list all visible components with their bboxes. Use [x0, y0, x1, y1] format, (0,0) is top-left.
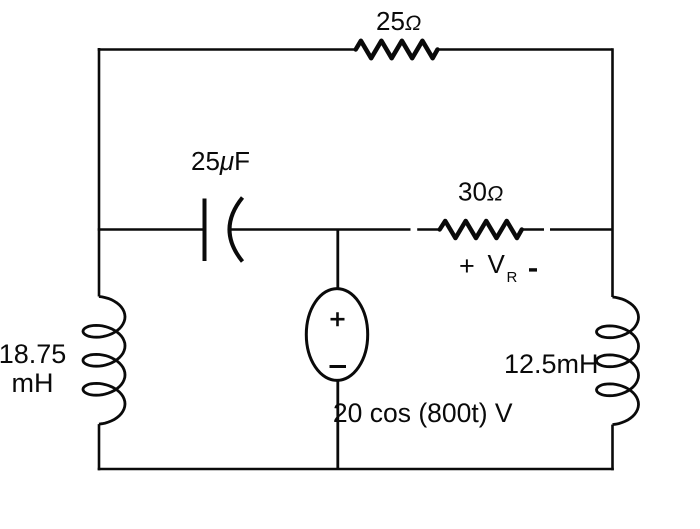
- wire right vertical lower: [611, 425, 614, 471]
- svg-text:30Ω: 30Ω: [458, 177, 503, 207]
- plus sign inside source: [331, 312, 345, 326]
- svg-text:12.5mH: 12.5mH: [504, 349, 599, 379]
- svg-text:V: V: [488, 249, 506, 279]
- svg-text:20 cos (800t) V: 20 cos (800t) V: [333, 398, 513, 428]
- minus sign inside source: [330, 365, 347, 368]
- voltage source VS ellipse: [306, 289, 367, 381]
- inductor L2 12.5mH coil: [597, 297, 639, 425]
- wire middle-left: node to capacitor: [98, 228, 205, 231]
- wire left vertical upper: [98, 48, 101, 296]
- resistor R2 30-ohm zigzag: [440, 221, 522, 238]
- wire middle: capacitor to break: [231, 228, 411, 231]
- wire dash right of R2: [524, 228, 545, 231]
- capacitor C1 left plate: [203, 199, 207, 262]
- svg-text:18.75: 18.75: [0, 339, 66, 369]
- svg-text:25Ω: 25Ω: [376, 6, 421, 36]
- resistor R1 25-ohm zigzag: [356, 41, 438, 58]
- wire right vertical upper: [611, 48, 614, 297]
- wire middle-right: to right node: [550, 228, 613, 231]
- wire bottom rail: [98, 468, 614, 471]
- inductor L1 18.75mH coil: [83, 297, 125, 425]
- wire mid vertical: source bottom to bottom rail: [336, 380, 339, 469]
- label minus of VR: [529, 268, 537, 271]
- wire dash left of R2: [417, 228, 440, 231]
- wire mid vertical: node to source top: [336, 230, 339, 290]
- svg-text:25μF: 25μF: [191, 146, 250, 176]
- wire top-right: resistor to right corner: [438, 48, 613, 51]
- wire top-left: corner to 25-ohm resistor: [99, 48, 356, 50]
- wire left vertical lower: [98, 424, 101, 470]
- svg-text:R: R: [507, 269, 518, 286]
- svg-text:mH: mH: [12, 368, 54, 398]
- svg-text:+: +: [459, 251, 475, 281]
- capacitor C1 right curved plate: [230, 198, 243, 262]
